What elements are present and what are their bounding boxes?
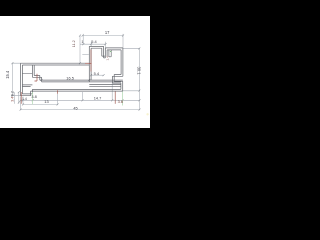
ticks row B — [22, 103, 59, 105]
svg-text:1: 1 — [81, 40, 83, 44]
red L at notch — [35, 74, 38, 81]
main bottom — [31, 89, 123, 91]
yellow watermark dot — [146, 113, 148, 115]
left chamber partition — [22, 73, 32, 75]
svg-text:3.8: 3.8 — [31, 94, 36, 99]
ext x91.2 — [90, 42, 92, 46]
notch step wall — [32, 65, 34, 77]
ext bottom x23 — [22, 97, 24, 105]
svg-text:3.8: 3.8 — [118, 99, 123, 104]
top wall — [21, 63, 90, 65]
pocket riser — [31, 89, 33, 95]
ticks 30.1 — [138, 47, 140, 91]
dim 1/5.4 shared line — [80, 43, 106, 45]
dim 11.2 vertical line — [79, 36, 81, 64]
tab right wall — [102, 46, 104, 58]
dim 17 line — [83, 35, 123, 37]
ticks 16.5 — [41, 79, 91, 81]
cavity floor — [40, 80, 123, 82]
ext bottom x112.2 — [111, 83, 113, 100]
svg-text:14.7: 14.7 — [94, 95, 102, 100]
step vertical — [112, 75, 114, 84]
ext bottom x139.5 — [139, 91, 141, 111]
svg-text:5.4: 5.4 — [91, 39, 97, 44]
ticks 11.2 — [79, 35, 81, 65]
ledge between tab and wall B — [102, 56, 106, 58]
notch shelf — [32, 76, 41, 78]
ext wall B top to 30.1 — [123, 47, 140, 49]
wall B top — [105, 48, 123, 50]
dim 17 ext right — [122, 34, 124, 48]
svg-text:30.1: 30.1 — [137, 67, 142, 76]
ticks row A — [20, 99, 141, 101]
green guideline left — [31, 92, 33, 104]
svg-text:15.4: 15.4 — [5, 70, 10, 79]
svg-text:3.4: 3.4 — [10, 97, 14, 102]
left pocket roof — [22, 85, 32, 87]
svg-text:1.4: 1.4 — [106, 56, 110, 61]
ticks x18.8 small dim — [18, 91, 20, 103]
green guideline right — [121, 92, 123, 106]
wall B slot — [109, 50, 111, 57]
ext x105.4 — [104, 42, 106, 48]
white drawing canvas — [0, 16, 150, 128]
ticks row C — [20, 109, 141, 111]
svg-text:45: 45 — [73, 106, 77, 111]
svg-text:5.4: 5.4 — [94, 71, 100, 76]
left wall — [21, 63, 23, 95]
wall B right — [121, 48, 123, 76]
ext bottom edge to 30.1 — [123, 90, 140, 92]
bottom row A dim line — [21, 99, 140, 101]
bottom row B dim line (13) — [23, 103, 58, 105]
step B horizontal — [112, 81, 122, 83]
red tab inner-left vertical — [90, 50, 92, 72]
svg-text:1.4: 1.4 — [22, 97, 27, 101]
red along top wall outer — [85, 62, 92, 64]
bottom row C dim line (45) — [21, 109, 140, 111]
svg-text:16.5: 16.5 — [66, 75, 74, 80]
right end vertical — [121, 81, 123, 91]
web A right — [89, 85, 121, 87]
ticks 15.4 — [11, 62, 13, 97]
dim 5.4 lower line — [91, 74, 104, 76]
tab top — [89, 46, 103, 48]
small line x14.6 — [14, 92, 16, 104]
red stub x57.6 — [57, 90, 59, 94]
red ext right bottom — [114, 92, 116, 104]
ticks 17 — [82, 35, 124, 37]
dim 17 ext left — [82, 34, 84, 45]
notch down leg — [40, 76, 42, 82]
step A horizontal — [112, 75, 123, 77]
pocket bottom wall — [21, 94, 33, 96]
cavity right wall / tab left wall — [89, 46, 91, 82]
svg-text:13: 13 — [44, 99, 48, 104]
red ext left bottom — [20, 92, 22, 104]
wall B left — [105, 48, 107, 58]
svg-text:17: 17 — [105, 30, 110, 35]
ext bottom x82.5 — [82, 92, 84, 101]
green dash in wall B slot — [110, 51, 112, 53]
ext bottom x20.6 — [20, 97, 22, 111]
ext bottom x57.6 gray part — [57, 94, 59, 105]
ticks 5.4 lower — [90, 74, 105, 76]
ticks 1 / 5.4 top — [82, 43, 106, 45]
dim 30.1 vertical line — [138, 48, 140, 90]
light ledge line left of tab — [82, 54, 89, 56]
small dim line x18.8 — [18, 92, 20, 103]
dim 15.4 vertical line — [12, 63, 20, 96]
svg-text:6.2: 6.2 — [10, 91, 14, 96]
svg-text:11.2: 11.2 — [72, 40, 76, 47]
